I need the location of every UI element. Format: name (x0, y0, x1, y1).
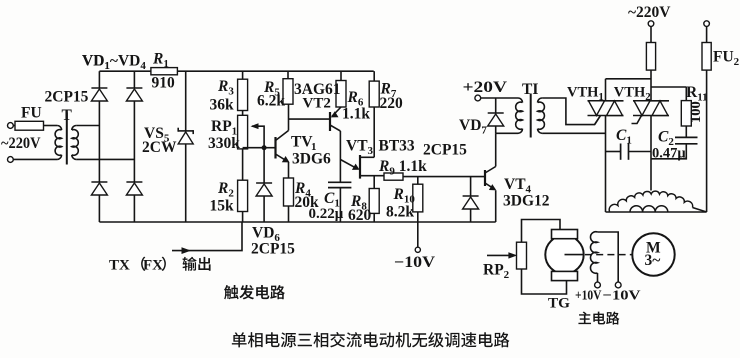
svg-text:2CP15: 2CP15 (423, 142, 467, 159)
svg-text:TV: TV (291, 134, 313, 151)
svg-text:+10V: +10V (575, 288, 602, 303)
svg-text:~220V: ~220V (628, 4, 671, 21)
svg-text:−10V: −10V (394, 254, 436, 271)
svg-text:0.22μ: 0.22μ (309, 206, 344, 222)
svg-text:100: 100 (688, 101, 704, 123)
svg-text:910: 910 (152, 75, 176, 92)
svg-text:3DG12: 3DG12 (503, 193, 550, 210)
svg-text:VD1~VD4: VD1~VD4 (82, 53, 146, 73)
svg-text:~220V: ~220V (1, 135, 41, 152)
svg-text:BT33: BT33 (379, 138, 415, 155)
svg-text:TI: TI (522, 81, 538, 98)
svg-text:1.1k: 1.1k (342, 106, 370, 123)
svg-text:VT2: VT2 (303, 96, 331, 112)
svg-text:3~: 3~ (645, 252, 661, 269)
svg-text:FU: FU (21, 105, 42, 122)
svg-text:TX: TX (109, 258, 130, 274)
svg-text:VTH1: VTH1 (567, 85, 604, 104)
svg-text:3DG6: 3DG6 (292, 151, 331, 168)
svg-text:−10V: −10V (603, 288, 641, 303)
svg-text:330k: 330k (208, 135, 240, 152)
svg-text:36k: 36k (210, 97, 235, 114)
svg-text:6.2k: 6.2k (257, 93, 285, 110)
svg-text:FX: FX (143, 258, 163, 274)
svg-text:2CP15: 2CP15 (251, 241, 295, 258)
svg-text:2CW: 2CW (142, 139, 177, 156)
svg-text:8.2k: 8.2k (386, 204, 414, 221)
svg-text:TG: TG (548, 294, 570, 311)
svg-text:15k: 15k (210, 198, 235, 215)
svg-text:220: 220 (380, 95, 404, 112)
svg-text:R9 1.1k: R9 1.1k (378, 158, 427, 178)
svg-text:0.47μ: 0.47μ (652, 146, 686, 162)
svg-text:2CP15: 2CP15 (45, 89, 89, 106)
svg-text:620: 620 (348, 207, 372, 224)
svg-text:+20V: +20V (463, 79, 509, 96)
svg-text:T: T (62, 107, 73, 124)
